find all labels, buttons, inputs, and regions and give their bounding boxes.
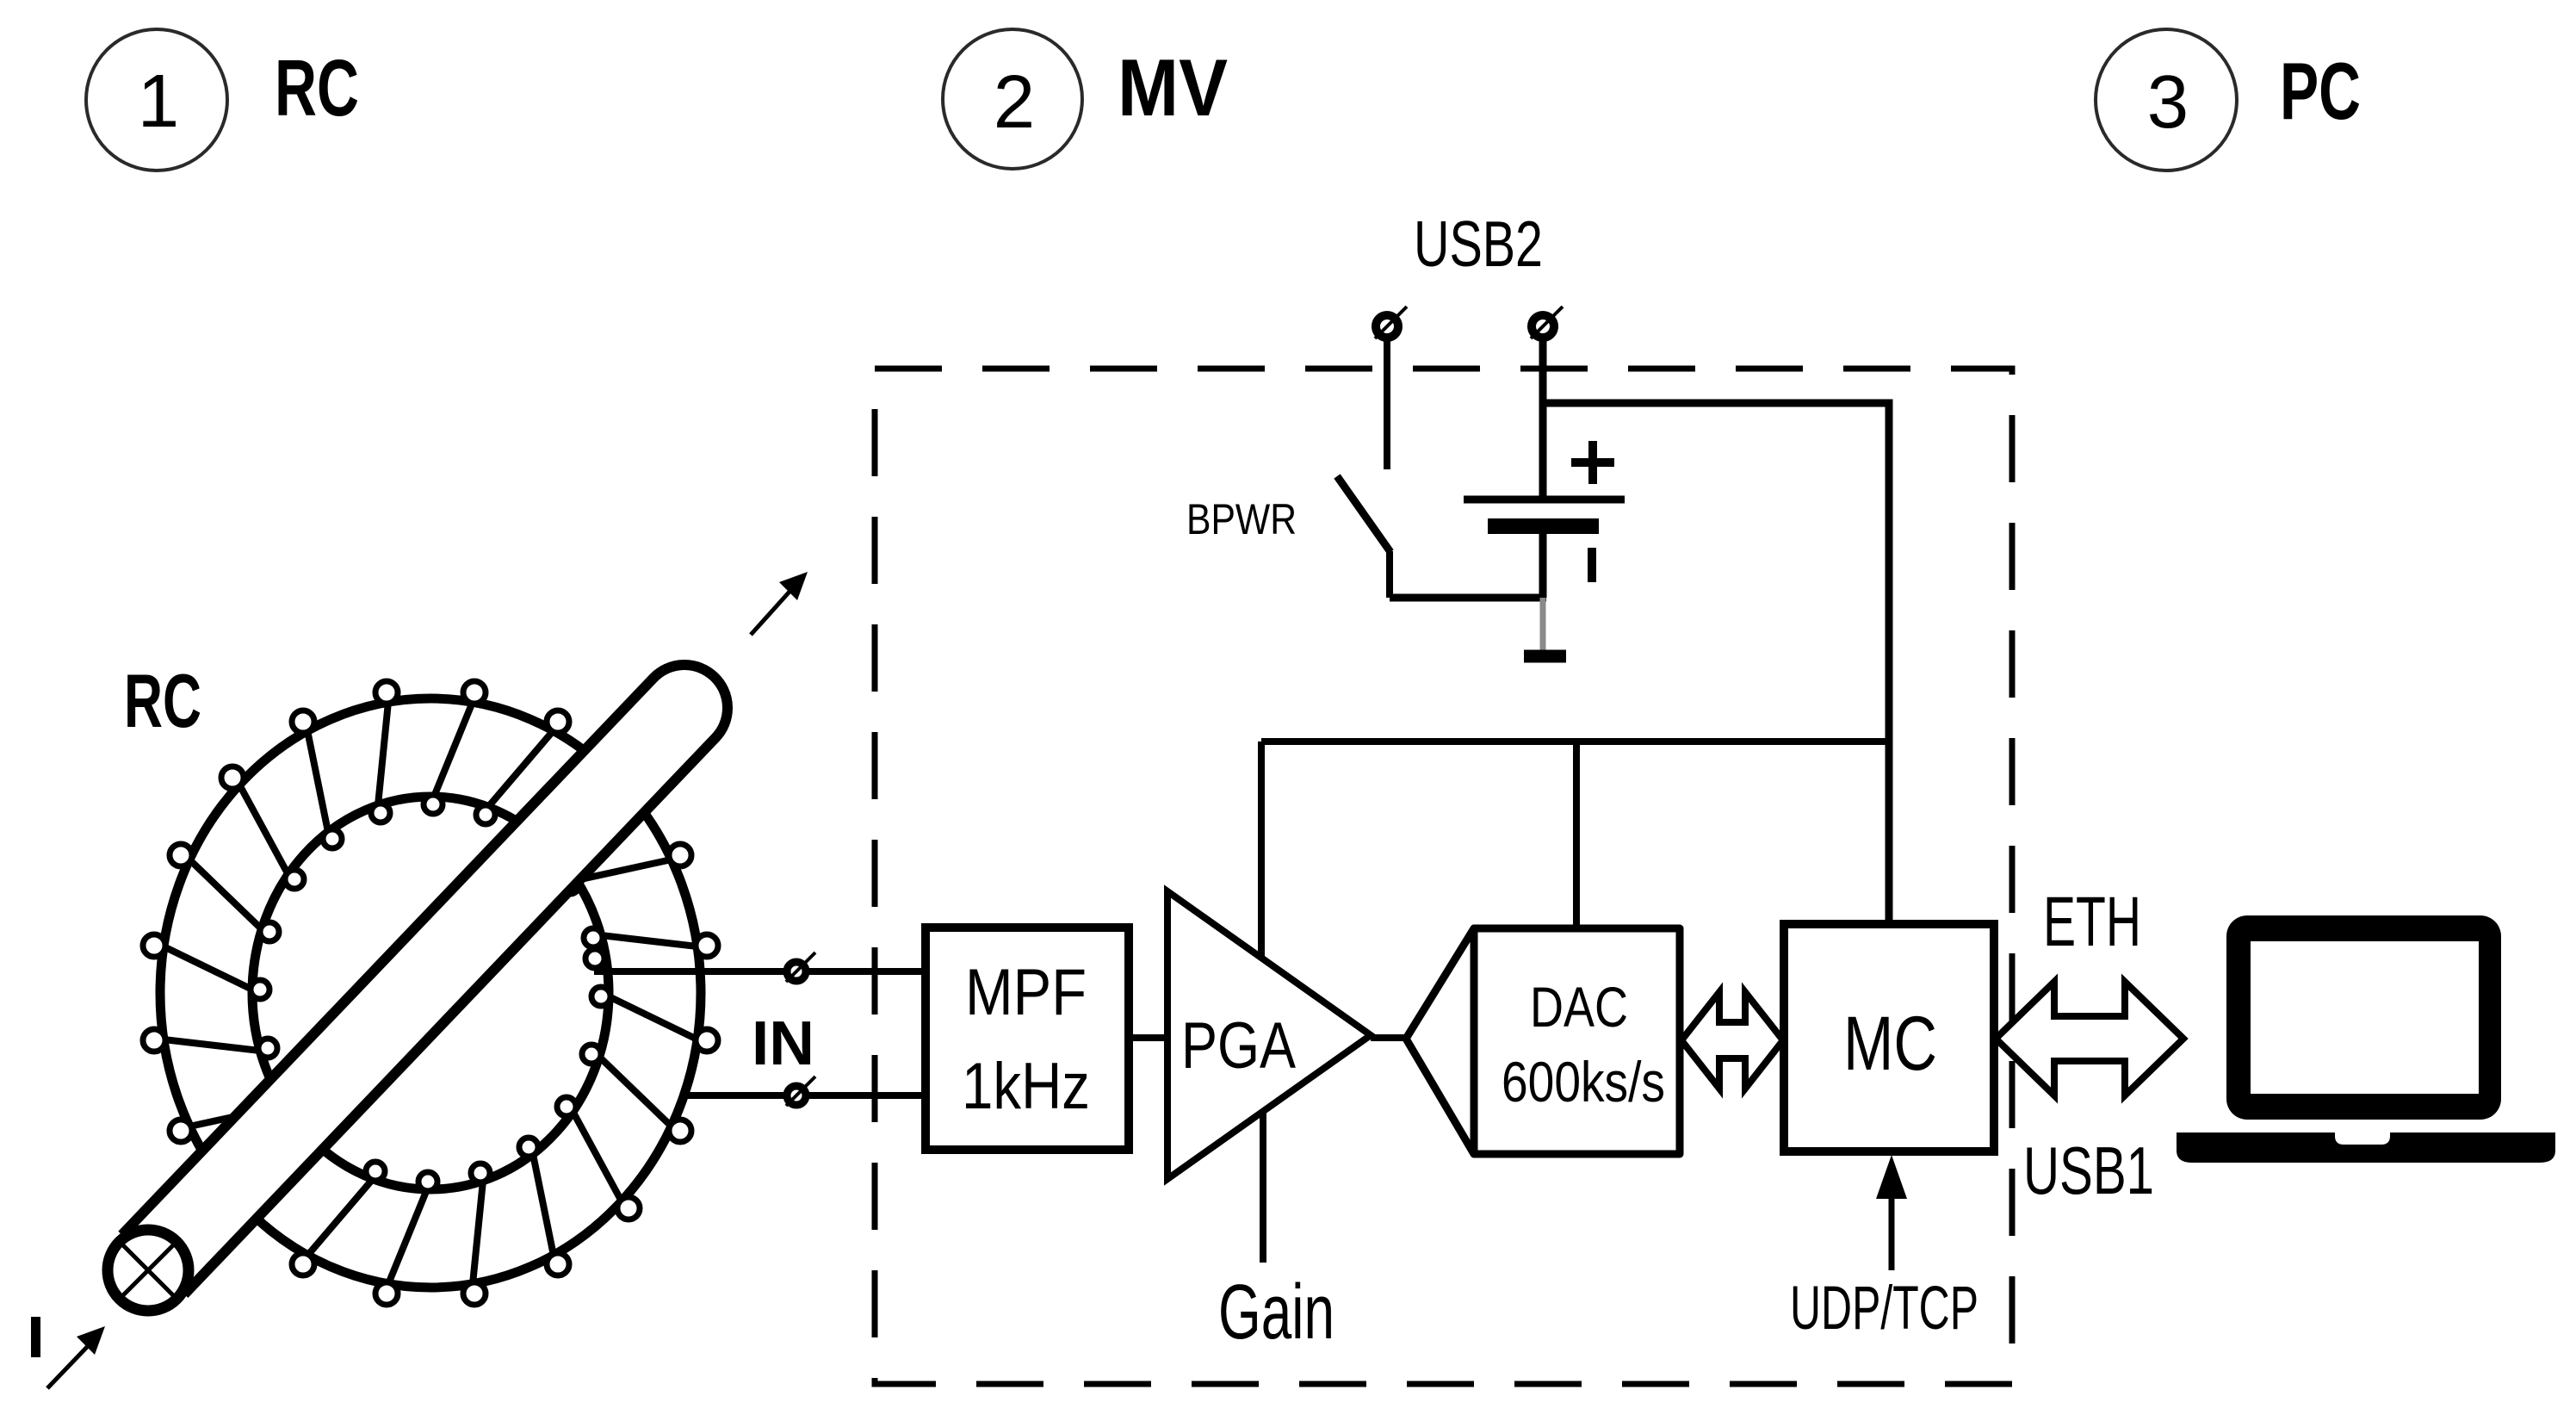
svg-text:RC: RC <box>124 658 201 743</box>
wire rail to DAC top <box>1573 742 1580 930</box>
svg-text:DAC: DAC <box>1530 975 1628 1039</box>
step marker circle 2 <box>943 29 1082 169</box>
svg-text:RC: RC <box>275 43 359 133</box>
coil output loop at upper wire start <box>585 949 604 968</box>
current arrow <box>47 1326 105 1388</box>
Rogowski coil winding loops (inner bumps) <box>251 795 610 1191</box>
svg-text:MC: MC <box>1843 1000 1937 1086</box>
block MC <box>1784 924 1994 1151</box>
svg-text:MPF: MPF <box>965 956 1087 1029</box>
battery + label <box>1571 441 1614 484</box>
terminal USB2 left <box>1375 307 1407 338</box>
Rogowski coil RC : toroid body <box>160 698 701 1288</box>
feedback rail wire (horizontal) <box>1261 738 1889 745</box>
svg-text:Gain: Gain <box>1218 1269 1334 1356</box>
svg-text:2: 2 <box>994 60 1035 144</box>
wire coil to IN upper terminal and MPF <box>594 968 926 975</box>
wire battery to ground (gray) <box>1540 598 1546 656</box>
block DAC 600ks/s <box>1406 928 1680 1154</box>
svg-text:1kHz: 1kHz <box>962 1050 1090 1123</box>
switch BPWR (open blade) <box>1337 476 1390 598</box>
svg-text:BPWR: BPWR <box>1186 495 1297 543</box>
battery cell <box>1464 500 1625 598</box>
bus DAC-MC double arrow <box>1681 992 1783 1089</box>
svg-text:PC: PC <box>2280 46 2361 136</box>
svg-text:1: 1 <box>138 59 179 143</box>
block MPF 1kHz <box>926 928 1129 1150</box>
terminal IN lower <box>786 1077 815 1106</box>
step marker circle 1 <box>86 29 227 171</box>
terminal IN upper <box>786 953 815 982</box>
svg-text:USB2: USB2 <box>1414 208 1543 280</box>
wire USB2 right terminal down to battery positive <box>1539 340 1547 500</box>
gain control stub line <box>1260 1111 1266 1263</box>
coil output arrow (top right) <box>751 572 808 635</box>
current direction marker (circle with X) <box>108 1230 189 1311</box>
wire MPF to PGA <box>1129 1034 1171 1041</box>
Rogowski coil windings (spokes) <box>164 702 697 1284</box>
ground symbol <box>1524 650 1566 663</box>
wire USB2 left terminal to switch <box>1384 340 1390 469</box>
svg-text:UDP/TCP: UDP/TCP <box>1790 1275 1978 1343</box>
wire coil to IN lower terminal and MPF <box>682 1092 926 1099</box>
svg-text:IN: IN <box>752 1009 814 1078</box>
step marker circle 3 <box>2096 29 2237 171</box>
battery - label <box>1588 548 1596 582</box>
Rogowski coil winding loops (outer bumps) <box>143 681 718 1305</box>
UDP/TCP arrow into MC <box>1876 1155 1907 1270</box>
laptop PC icon <box>2177 915 2555 1163</box>
conductor rod through coil <box>126 665 728 1291</box>
wire PGA to DAC <box>1371 1034 1412 1041</box>
wire rail to PGA top <box>1258 742 1265 961</box>
svg-text:600ks/s: 600ks/s <box>1502 1050 1665 1114</box>
svg-text:MV: MV <box>1118 42 1228 133</box>
power rail wire battery to MC <box>1543 403 1889 924</box>
wire switch to battery negative <box>1390 594 1546 602</box>
svg-text:PGA: PGA <box>1181 1009 1296 1083</box>
svg-text:ETH: ETH <box>2043 883 2141 961</box>
bus MC-PC double arrow <box>1996 982 2183 1095</box>
terminal USB2 right <box>1531 307 1563 338</box>
label I (current) <box>31 1317 40 1357</box>
MV enclosure dashed box <box>875 369 2012 1384</box>
svg-text:USB1: USB1 <box>2023 1132 2154 1208</box>
amplifier PGA <box>1167 891 1371 1179</box>
svg-text:3: 3 <box>2147 60 2189 144</box>
